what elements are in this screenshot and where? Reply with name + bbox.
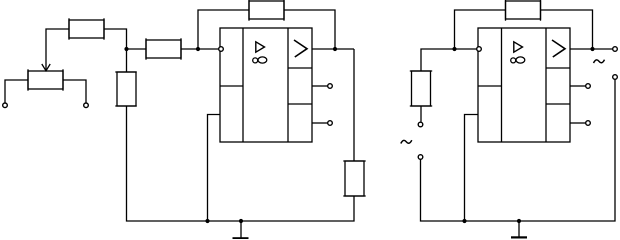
resistor R6 input — [410, 71, 432, 106]
AC source tilde left — [401, 140, 412, 143]
wire output bottom terminal to bus — [519, 80, 615, 222]
wire P1 left terminal — [5, 80, 28, 103]
junction on ground bus at U1 — [205, 219, 209, 223]
resistor R7 feedback — [506, 0, 541, 21]
U2 infinity symbol — [511, 57, 525, 63]
junction on ground bus at U2 — [462, 219, 466, 223]
ground bus right circuit — [465, 220, 520, 222]
U2 output chevron symbol — [552, 40, 565, 57]
node E junction — [590, 47, 594, 51]
wire P1 right terminal — [63, 80, 86, 103]
wire U2 aux pin 1 — [570, 85, 586, 87]
wire node C to R5 — [353, 49, 355, 161]
resistor R4 feedback — [249, 0, 284, 21]
wire P1 wiper from R1 left — [46, 29, 69, 70]
terminal X2 — [84, 103, 89, 108]
wire R7 left to node D — [455, 10, 506, 49]
wire R2 to U1 input — [181, 48, 219, 50]
resistor R3 — [115, 72, 136, 106]
node C junction — [333, 47, 337, 51]
op-amp U1 body — [220, 28, 312, 142]
U1 infinity symbol — [253, 57, 267, 63]
terminal input top right circuit — [418, 122, 423, 127]
wire R7 right to node E — [541, 10, 593, 49]
junction at ground symbol right — [517, 219, 521, 223]
U1 amplifier triangle symbol — [256, 42, 265, 52]
wire U2 aux pin 2 — [570, 122, 586, 124]
node A junction — [124, 47, 128, 51]
resistor R2 — [146, 38, 181, 59]
node B junction — [196, 47, 200, 51]
U1 aux pin 1 circle — [328, 84, 333, 89]
junction at ground symbol left — [239, 219, 243, 223]
ground symbol left — [233, 221, 249, 238]
AC tilde right — [594, 60, 605, 63]
terminal output bottom — [613, 75, 618, 80]
node D junction — [452, 47, 456, 51]
wire U2 ground pin — [465, 115, 479, 222]
U2 aux pin 2 circle — [586, 121, 591, 126]
op-amp U2 body — [478, 28, 570, 142]
U1 aux pin 2 circle — [328, 121, 333, 126]
U1 output chevron symbol — [294, 40, 307, 57]
terminal input bottom — [418, 155, 423, 160]
terminal output top — [613, 47, 618, 52]
wire U1 output — [312, 48, 354, 50]
wire U2 output — [570, 48, 613, 50]
wire R3 to ground bus — [127, 106, 208, 221]
wire U1 aux pin 1 — [312, 85, 328, 87]
terminal X1 — [3, 103, 8, 108]
ground symbol right — [511, 221, 527, 237]
U2 input pin circle — [477, 47, 482, 52]
ground bus left circuit — [208, 220, 242, 222]
wire node A to R2 — [127, 48, 147, 50]
potentiometer P1 — [28, 69, 63, 90]
resistor R1 — [69, 18, 104, 39]
U1 input pin circle — [219, 47, 224, 52]
wire R4 right to node C — [284, 10, 335, 49]
P1 wiper arrowhead — [42, 64, 50, 71]
U2 aux pin 1 circle — [586, 84, 591, 89]
wire node A to R3 — [126, 49, 128, 72]
resistor R5 load — [343, 161, 365, 196]
wire U1 aux pin 2 — [312, 122, 328, 124]
wire R4 left to node B — [198, 10, 249, 49]
wire R6 to U2 input — [421, 49, 477, 71]
wire U1 ground pin — [208, 115, 221, 222]
wire input bottom terminal to bus — [421, 160, 465, 222]
wire input top terminal to R6 — [420, 106, 422, 122]
wire R5 to ground bus — [241, 196, 354, 221]
U2 amplifier triangle symbol — [514, 42, 523, 52]
wire R1 right to node A — [104, 29, 127, 49]
